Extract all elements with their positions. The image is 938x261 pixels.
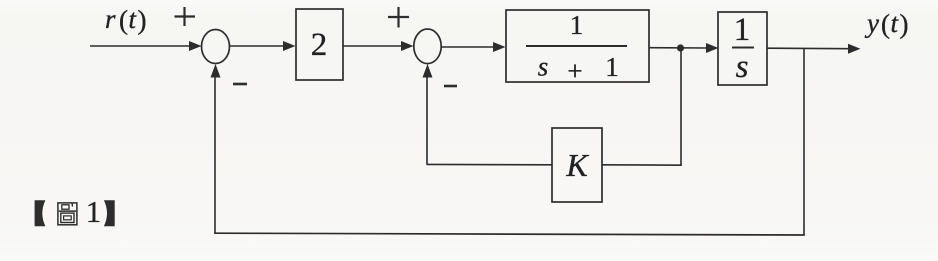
wire node A to K right side	[602, 164, 682, 166]
caption bracket right 】	[104, 200, 115, 226]
wire K to S2 horizontal	[427, 163, 552, 165]
svg-text:s: s	[538, 52, 549, 82]
wire block 2 to S2	[343, 41, 414, 51]
wire K to S2 vertical with arrowhead	[423, 64, 433, 165]
summing junction S1	[202, 30, 230, 64]
node A takeoff dot	[677, 44, 684, 51]
wire node A down to K	[680, 51, 682, 165]
svg-text:): )	[900, 9, 909, 39]
svg-text:2: 2	[311, 27, 328, 63]
svg-text:1: 1	[86, 194, 102, 229]
wire outer feedback up to S1	[211, 64, 221, 233]
wire S2 to block G1	[441, 42, 506, 52]
wire outer feedback bottom	[214, 233, 805, 235]
svg-text:1: 1	[605, 52, 619, 82]
plus sign at summing junction S1	[175, 7, 196, 26]
svg-text:K: K	[565, 147, 589, 183]
caption bracket left 【	[35, 200, 46, 226]
caption ideograph 圖	[58, 203, 77, 225]
gain block K	[552, 128, 602, 202]
minus sign at S1	[233, 83, 247, 86]
svg-text:(: (	[119, 5, 128, 35]
svg-text:y: y	[864, 8, 879, 38]
integrator block G2 1/s	[718, 12, 767, 85]
svg-text:s: s	[736, 49, 749, 85]
wire outer feedback takeoff down	[803, 49, 805, 235]
svg-text:1: 1	[570, 10, 584, 40]
transfer function block G1 1/(s+1)	[506, 10, 649, 86]
input label r(t)	[105, 4, 147, 35]
svg-text:(: (	[881, 9, 890, 39]
plus sign at summing junction S2	[388, 7, 409, 28]
summing junction S2	[414, 29, 441, 64]
wire G2 output to y(t)	[767, 44, 861, 54]
wire S1 to gain block 2	[230, 41, 296, 51]
svg-text:+: +	[567, 56, 582, 86]
minus sign at S2	[444, 85, 457, 88]
wire G1 to block G2	[649, 43, 719, 53]
svg-text:r: r	[105, 4, 116, 34]
gain block 2	[296, 9, 343, 80]
svg-text:1: 1	[734, 12, 751, 48]
wire input to S1	[90, 41, 202, 51]
output label y(t)	[864, 8, 909, 39]
svg-text:): )	[138, 5, 147, 35]
